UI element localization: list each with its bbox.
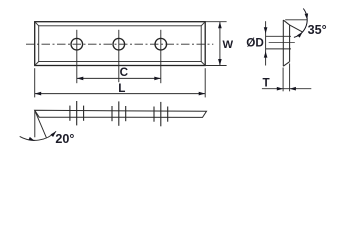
svg-text:ØD: ØD	[246, 36, 264, 49]
svg-text:C: C	[120, 66, 129, 79]
svg-text:20°: 20°	[55, 132, 74, 146]
svg-text:L: L	[118, 82, 125, 95]
svg-text:T: T	[263, 77, 271, 90]
svg-text:35°: 35°	[308, 23, 327, 37]
svg-text:W: W	[223, 39, 234, 51]
